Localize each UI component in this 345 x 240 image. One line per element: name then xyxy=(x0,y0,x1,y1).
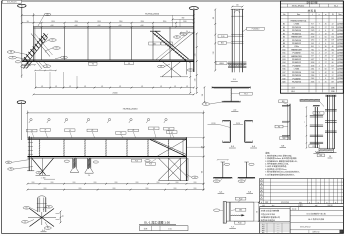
svg-text:19: 19 xyxy=(325,33,327,35)
svg-text:B7: B7 xyxy=(283,40,285,42)
dwg1 left below-chord dim xyxy=(35,70,56,72)
svg-text:184: 184 xyxy=(331,49,334,51)
svg-text:97: 97 xyxy=(332,75,334,77)
dwg1 panel extension lines xyxy=(41,23,43,27)
dwg2 left gusset below beam xyxy=(32,158,46,175)
svg-text:2038: 2038 xyxy=(311,36,315,38)
dwg1 below-chord left leaders xyxy=(22,64,35,66)
svg-text:2950: 2950 xyxy=(51,21,55,23)
svg-text:M16: M16 xyxy=(283,138,286,140)
svg-text:4: 4 xyxy=(319,65,320,67)
svg-text:27: 27 xyxy=(325,27,327,29)
dwg1 left gusset callouts xyxy=(7,51,15,54)
svg-text:P3: P3 xyxy=(47,228,49,230)
svg-text:159: 159 xyxy=(331,40,334,42)
svg-text:145: 145 xyxy=(55,86,57,88)
revision header row xyxy=(260,203,344,205)
svg-text:No: No xyxy=(283,14,285,16)
svg-text:86: 86 xyxy=(332,62,334,64)
svg-text:P1: P1 xyxy=(216,181,218,183)
svg-text:PL160X8: PL160X8 xyxy=(293,78,301,80)
svg-text:845: 845 xyxy=(311,46,314,48)
svg-text:187: 187 xyxy=(331,81,334,83)
svg-text:Q235B: Q235B xyxy=(337,30,343,32)
node detail channel member xyxy=(37,198,39,213)
svg-text:917: 917 xyxy=(311,24,314,26)
dwg1 panel stiffener verticals xyxy=(41,27,43,60)
svg-text:PL12: PL12 xyxy=(165,43,169,45)
tall post footing hatched xyxy=(319,148,334,152)
revision table left columns xyxy=(262,179,264,204)
svg-text:181: 181 xyxy=(331,78,334,80)
svg-text:PL250X10: PL250X10 xyxy=(292,30,301,32)
svg-text:7X2950=20650: 7X2950=20650 xyxy=(145,14,160,16)
svg-text:7: 7 xyxy=(319,24,320,26)
dwg1 right brace member double-line xyxy=(153,33,187,61)
svg-text:B8: B8 xyxy=(283,43,285,45)
svg-text:B20: B20 xyxy=(282,82,285,84)
svg-text:39: 39 xyxy=(325,49,327,51)
dwg2 right end diagonal brace xyxy=(150,139,186,156)
svg-text:B19: B19 xyxy=(282,78,285,80)
svg-text:工程设计证书 甲级: 工程设计证书 甲级 xyxy=(261,213,275,216)
svg-text:PL10: PL10 xyxy=(313,146,316,148)
svg-text:46: 46 xyxy=(332,46,334,48)
svg-text:5: 5 xyxy=(319,72,320,74)
dwg2 weld callout boxes xyxy=(27,129,38,132)
svg-text:9: 9 xyxy=(325,65,326,67)
dwg1 lower dimension line 2 xyxy=(34,93,194,95)
svg-text:1200: 1200 xyxy=(213,51,215,54)
svg-text:62: 62 xyxy=(332,56,334,58)
svg-text:HN396X199: HN396X199 xyxy=(291,37,301,39)
svg-text:B6: B6 xyxy=(183,34,185,36)
svg-text:6-6: 6-6 xyxy=(248,191,251,193)
svg-text:33: 33 xyxy=(332,33,334,35)
svg-text:400: 400 xyxy=(257,211,259,213)
BOM table title row xyxy=(280,3,343,5)
dwg2 bottom flange xyxy=(28,156,187,158)
BOM header row xyxy=(280,15,343,17)
beam end detail weld arrows xyxy=(230,214,244,216)
dwg1 bottom chord double line xyxy=(22,59,194,61)
svg-text:2008: 2008 xyxy=(277,232,280,234)
dwg2 left end plate xyxy=(28,136,30,170)
svg-text:30: 30 xyxy=(325,46,327,48)
svg-text:B6: B6 xyxy=(283,37,285,39)
xref label box top-left xyxy=(2,0,21,3)
svg-text:B4: B4 xyxy=(283,30,285,32)
svg-text:XX工业园钢结构厂房工程: XX工业园钢结构厂房工程 xyxy=(306,212,325,215)
svg-text:2585: 2585 xyxy=(311,81,315,83)
svg-text:880: 880 xyxy=(182,18,185,20)
svg-text:900: 900 xyxy=(201,171,203,173)
svg-text:B5: B5 xyxy=(283,33,285,35)
svg-text:n: n xyxy=(319,14,320,16)
section A-A bottom flange xyxy=(222,101,240,103)
svg-text:2494: 2494 xyxy=(311,27,315,29)
svg-text:Q235B: Q235B xyxy=(337,65,343,67)
dwg2 right vertical dimension xyxy=(203,138,205,190)
svg-text:21000: 21000 xyxy=(113,93,118,95)
svg-text:J5: J5 xyxy=(24,221,26,223)
svg-text:1: 1 xyxy=(319,40,320,42)
svg-text:2950: 2950 xyxy=(119,21,123,23)
svg-text:782: 782 xyxy=(311,49,314,51)
section A-A top flange xyxy=(212,86,250,88)
grid line A2 xyxy=(20,104,22,140)
svg-text:HN396X199X7X11: HN396X199X7X11 xyxy=(291,20,307,22)
svg-text:27: 27 xyxy=(325,53,327,55)
svg-text:B15: B15 xyxy=(282,65,285,67)
svg-text:比例: 比例 xyxy=(144,227,148,230)
column detail left dim xyxy=(214,10,216,71)
svg-text:2950: 2950 xyxy=(194,182,197,184)
svg-text:PL10: PL10 xyxy=(238,223,242,225)
dwg2 right lattice below beam xyxy=(159,158,181,180)
svg-text:2950: 2950 xyxy=(113,188,116,190)
svg-text:B1: B1 xyxy=(26,207,28,209)
dwg1 mid callout box 2 xyxy=(125,62,134,65)
beam end detail right dim xyxy=(258,202,260,221)
svg-text:2950: 2950 xyxy=(141,21,145,23)
dwg1 mid callout box 1 xyxy=(89,62,98,65)
node detail crossing diagonals xyxy=(30,209,55,227)
svg-text:2396: 2396 xyxy=(311,75,315,77)
svg-text:B2: B2 xyxy=(52,40,54,42)
svg-text:B2: B2 xyxy=(283,24,285,26)
revision triangles xyxy=(260,179,262,181)
svg-text:Q235B: Q235B xyxy=(337,75,343,77)
svg-text:K1: K1 xyxy=(63,57,65,59)
svg-text:2950: 2950 xyxy=(73,182,76,184)
svg-text:J1: J1 xyxy=(38,172,40,174)
section D-D xyxy=(244,121,246,143)
svg-text:B12: B12 xyxy=(282,56,285,58)
dwg2 stiffeners with hatch xyxy=(39,139,41,156)
BOM material-table title xyxy=(280,11,343,13)
svg-text:6: 6 xyxy=(325,43,326,45)
svg-text:Q235B: Q235B xyxy=(337,59,343,61)
column detail top-right callout xyxy=(247,27,264,30)
svg-text:Size: Size xyxy=(297,14,300,16)
svg-text:396: 396 xyxy=(202,94,204,96)
svg-text:B18: B18 xyxy=(282,75,285,77)
svg-text:Q235B: Q235B xyxy=(337,27,343,29)
svg-text:7: 7 xyxy=(319,75,320,77)
svg-text:27: 27 xyxy=(325,62,327,64)
section C-C xyxy=(229,121,231,143)
svg-text:XG-JG-021: XG-JG-021 xyxy=(7,2,17,4)
svg-text:4: 4 xyxy=(319,53,320,55)
svg-text:Q235B: Q235B xyxy=(337,49,343,51)
svg-text:PL220: PL220 xyxy=(211,123,215,125)
svg-text:B9: B9 xyxy=(283,46,285,48)
svg-text:1:50: 1:50 xyxy=(168,228,171,230)
svg-text:557: 557 xyxy=(311,56,314,58)
BOM table frame xyxy=(280,1,343,93)
svg-text:2950: 2950 xyxy=(176,182,179,184)
svg-text:28: 28 xyxy=(332,72,334,74)
BOM data rows xyxy=(280,18,343,20)
svg-text:B4: B4 xyxy=(205,104,207,106)
svg-text:145: 145 xyxy=(84,86,86,88)
svg-text:154: 154 xyxy=(331,36,334,38)
svg-text:PL250X10: PL250X10 xyxy=(252,29,260,31)
svg-text:HN396X199: HN396X199 xyxy=(291,49,301,51)
svg-text:2950: 2950 xyxy=(115,182,118,184)
svg-text:PL8: PL8 xyxy=(135,160,138,162)
svg-text:56: 56 xyxy=(325,36,327,38)
svg-text:5: 5 xyxy=(319,49,320,51)
grid bubble A2 xyxy=(17,101,26,104)
title row 2 xyxy=(260,206,344,208)
svg-text:制造特级 安装壹级: 制造特级 安装壹级 xyxy=(261,219,275,222)
svg-text:P4: P4 xyxy=(10,169,12,171)
svg-text:2950: 2950 xyxy=(163,21,167,23)
svg-text:2378: 2378 xyxy=(311,30,315,32)
svg-text:Q235B: Q235B xyxy=(337,46,343,48)
svg-text:722: 722 xyxy=(311,53,314,55)
svg-text:PL8: PL8 xyxy=(149,164,152,166)
svg-text:B11: B11 xyxy=(283,53,286,55)
svg-text:PL220X10: PL220X10 xyxy=(292,72,301,74)
svg-text:2: 2 xyxy=(319,27,320,29)
grid bubble A left xyxy=(18,4,27,7)
svg-text:GL-1 加工详图 1:50: GL-1 加工详图 1:50 xyxy=(144,220,171,225)
svg-text:7: 7 xyxy=(319,78,320,80)
svg-text:7-7: 7-7 xyxy=(231,227,234,229)
svg-text:材 料 表: 材 料 表 xyxy=(308,8,317,12)
svg-text:6: 6 xyxy=(325,78,326,80)
svg-text:2950: 2950 xyxy=(75,21,79,23)
svg-text:40: 40 xyxy=(325,40,327,42)
dwg2 top flange xyxy=(28,137,187,139)
ladder detail callouts xyxy=(309,145,320,148)
svg-text:2012: 2012 xyxy=(311,33,315,35)
svg-text:B16: B16 xyxy=(282,69,285,71)
dwg1 right short dims xyxy=(173,18,194,20)
svg-text:10: 10 xyxy=(329,156,331,158)
column detail mid leaders xyxy=(218,35,228,38)
svg-text:Q235B: Q235B xyxy=(337,36,343,38)
svg-text:260: 260 xyxy=(39,69,41,71)
company name block xyxy=(260,209,291,222)
svg-text:450: 450 xyxy=(186,31,188,33)
dwg1 left gusset below-chord stubs xyxy=(23,61,29,68)
svg-text:145: 145 xyxy=(119,86,121,88)
svg-text:B3: B3 xyxy=(56,48,58,50)
svg-text:157: 157 xyxy=(331,65,334,67)
dwg1 right vertical dim lines xyxy=(196,33,198,93)
column detail rungs xyxy=(231,34,243,36)
grid line A xyxy=(21,7,23,62)
svg-text:8: 8 xyxy=(319,69,320,71)
BOM subtitle cells xyxy=(280,6,343,8)
svg-text:2950: 2950 xyxy=(146,188,149,190)
svg-text:PL300X12: PL300X12 xyxy=(292,33,301,35)
svg-text:2698: 2698 xyxy=(311,62,315,64)
svg-text:Q235B: Q235B xyxy=(337,78,343,80)
column detail body verticals xyxy=(231,9,233,72)
revision table frame xyxy=(260,179,344,204)
svg-text:2477: 2477 xyxy=(311,59,315,61)
svg-text:1036: 1036 xyxy=(311,65,315,67)
svg-text:PL300X12: PL300X12 xyxy=(292,59,301,61)
svg-text:PL220: PL220 xyxy=(236,123,240,125)
svg-text:o140: o140 xyxy=(118,25,121,27)
svg-text:o140: o140 xyxy=(50,25,53,27)
svg-text:97: 97 xyxy=(332,69,334,71)
node detail right dims xyxy=(60,212,62,223)
dwg1 left brace crossing diagonal xyxy=(31,34,50,57)
dwg1 chord panel ticks xyxy=(41,26,43,28)
svg-text:1: 1 xyxy=(319,36,320,38)
dwg2 bracket detail 1 below beam xyxy=(72,158,74,168)
svg-text:o140: o140 xyxy=(97,25,100,27)
svg-text:L75X6: L75X6 xyxy=(294,69,299,71)
dwg1 right callout boxes xyxy=(149,42,161,45)
svg-text:B10: B10 xyxy=(282,49,285,51)
svg-text:43: 43 xyxy=(325,56,327,58)
svg-text:2950: 2950 xyxy=(51,182,54,184)
svg-text:Q235B: Q235B xyxy=(337,69,343,71)
hatched splice plate xyxy=(300,99,320,101)
column detail top cap xyxy=(231,8,244,10)
svg-text:J4: J4 xyxy=(194,177,196,179)
ladder detail xyxy=(314,107,316,148)
dwg2 balloon labels xyxy=(30,118,32,120)
dwg2 right lattice callouts xyxy=(192,176,199,179)
svg-text:2950: 2950 xyxy=(44,188,47,190)
svg-text:P8: P8 xyxy=(278,126,280,128)
svg-text:145: 145 xyxy=(174,86,176,88)
svg-text:145: 145 xyxy=(41,86,43,88)
section E-E xyxy=(222,162,224,178)
svg-text:Q235B: Q235B xyxy=(337,56,343,58)
svg-text:Q235B: Q235B xyxy=(337,62,343,64)
svg-text:HN396X199: HN396X199 xyxy=(291,56,301,58)
svg-text:M24: M24 xyxy=(319,155,322,157)
svg-text:B5: B5 xyxy=(176,37,178,39)
svg-text:2302: 2302 xyxy=(311,78,315,80)
svg-text:145: 145 xyxy=(69,86,71,88)
svg-text:XXGC-SH-012: XXGC-SH-012 xyxy=(292,6,304,8)
svg-text:P6: P6 xyxy=(46,66,48,68)
svg-text:6: 6 xyxy=(325,30,326,32)
svg-text:90: 90 xyxy=(62,215,64,217)
svg-text:o140: o140 xyxy=(74,25,77,27)
svg-text:2950: 2950 xyxy=(32,182,35,184)
svg-text:V8: V8 xyxy=(168,128,170,130)
title block main rows xyxy=(290,215,343,217)
svg-text:HN396: HN396 xyxy=(219,63,224,65)
svg-text:1286: 1286 xyxy=(331,91,335,93)
svg-text:PL-9: PL-9 xyxy=(244,94,247,96)
svg-text:2950: 2950 xyxy=(194,188,197,190)
svg-text:J2: J2 xyxy=(12,57,14,59)
svg-text:2950: 2950 xyxy=(94,182,97,184)
svg-text:PL250X10: PL250X10 xyxy=(292,27,301,29)
svg-text:5-5: 5-5 xyxy=(219,191,222,193)
svg-text:Q235B: Q235B xyxy=(337,53,343,55)
svg-text:M6: M6 xyxy=(8,162,10,164)
dwg1 panel dimension line xyxy=(22,22,194,24)
svg-text:B17: B17 xyxy=(282,72,285,74)
svg-text:PL12: PL12 xyxy=(239,198,243,200)
svg-text:300: 300 xyxy=(304,121,306,123)
dwg2 bracket detail 2 below beam xyxy=(86,158,88,168)
svg-text:Q235B: Q235B xyxy=(337,33,343,35)
dwg2 left below callouts xyxy=(5,161,11,164)
dwg2 top dimension line xyxy=(28,112,204,114)
svg-text:2008: 2008 xyxy=(277,226,280,228)
svg-text:503: 503 xyxy=(311,43,314,45)
svg-text:PL300X12: PL300X12 xyxy=(292,43,301,45)
svg-text:6: 6 xyxy=(319,81,320,83)
svg-text:o140: o140 xyxy=(140,25,143,27)
svg-text:PL250X10: PL250X10 xyxy=(292,75,301,77)
svg-text:B14: B14 xyxy=(282,62,285,64)
node detail callouts xyxy=(23,207,30,210)
svg-text:800: 800 xyxy=(213,17,215,19)
svg-text:1500: 1500 xyxy=(195,78,197,81)
dwg1 left top callout xyxy=(44,13,51,16)
svg-text:M20: M20 xyxy=(221,43,224,45)
svg-text:22: 22 xyxy=(332,24,334,26)
dwg1 lower dimension line 1 xyxy=(36,87,194,89)
section A-A left dim xyxy=(203,87,205,102)
svg-text:M8: M8 xyxy=(10,52,12,54)
title block outer xyxy=(260,207,344,234)
svg-text:1: 1 xyxy=(319,56,320,58)
svg-text:2950: 2950 xyxy=(136,182,139,184)
svg-text:L: L xyxy=(312,14,313,16)
svg-text:250: 250 xyxy=(88,175,90,177)
svg-text:J3: J3 xyxy=(160,66,162,68)
svg-text:145: 145 xyxy=(141,86,143,88)
dwg1 overall dimension line xyxy=(22,14,194,16)
svg-text:34: 34 xyxy=(332,53,334,55)
svg-text:2950: 2950 xyxy=(183,21,187,23)
dwg1 right lattice below chord xyxy=(162,61,181,76)
svg-text:P2: P2 xyxy=(190,70,192,72)
svg-text:P2: P2 xyxy=(241,181,243,183)
svg-text:PL250X10: PL250X10 xyxy=(292,82,301,84)
svg-text:32: 32 xyxy=(332,30,334,32)
svg-text:2950: 2950 xyxy=(97,21,101,23)
dwg1 top chord xyxy=(34,26,194,28)
svg-text:B3: B3 xyxy=(283,27,285,29)
svg-text:8: 8 xyxy=(319,62,320,64)
svg-text:B2: B2 xyxy=(48,206,50,208)
svg-text:PL250X10: PL250X10 xyxy=(292,40,301,42)
svg-text:2008: 2008 xyxy=(277,224,280,226)
svg-text:60: 60 xyxy=(325,69,327,71)
grid bubble B right xyxy=(189,7,198,10)
revision table right narrow columns xyxy=(306,179,308,204)
svg-text:1214: 1214 xyxy=(311,40,315,42)
svg-text:2950: 2950 xyxy=(79,188,82,190)
svg-text:Q235B: Q235B xyxy=(337,72,343,74)
svg-text:B13: B13 xyxy=(282,59,285,61)
svg-text:2: 2 xyxy=(319,33,320,35)
svg-text:2451: 2451 xyxy=(311,69,315,71)
svg-text:PL10: PL10 xyxy=(221,36,224,38)
svg-text:8-8: 8-8 xyxy=(281,145,284,147)
dwg1 left end verticals xyxy=(33,26,35,62)
dwg2 title scale box xyxy=(140,226,189,231)
